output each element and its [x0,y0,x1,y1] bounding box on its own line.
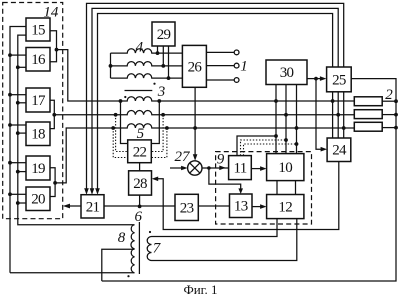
svg-text:4: 4 [136,39,144,55]
bus2 tap to 18 [18,132,26,134]
block 21 [81,195,104,218]
svg-text:8: 8 [118,230,126,246]
wire 26 down to mixer [194,87,196,155]
mixer 27 cross [190,163,200,173]
node busC [342,126,346,130]
bus1 tap to 20 [10,193,26,195]
node D2-v2 [284,138,288,142]
wire C (phase 3) with transformer winding [55,124,354,183]
svg-text:13: 13 [234,199,248,215]
bus2 tap to 20 [18,202,26,204]
svg-text:27: 27 [175,149,192,165]
svg-text:16: 16 [31,52,46,68]
arrow into 13 top [238,188,243,194]
wire 29 to W3 [168,46,170,78]
left bus wire 1 [10,27,26,273]
block 26 [182,45,206,87]
svg-text:25: 25 [332,72,346,88]
top bus line 3 [98,14,333,190]
wire 24 to 28 [157,162,339,230]
node 17/18 [52,113,56,117]
resistor 2a [354,97,382,106]
bus vertical 25-24 c [343,92,345,138]
dotted 11 top to v3 [244,144,297,156]
wire join 17+18 outputs [50,100,54,128]
link 10-12 left [276,181,278,195]
node 2a [394,99,398,103]
wire 12 bottom right to coil7 bottom [152,219,297,261]
link 10-12 right [295,181,297,195]
inductor 4 left link [110,53,112,78]
top bus line 1 [87,3,344,189]
label 6 above done; winding 8 [131,225,135,273]
node mixer out [207,166,211,170]
wire join 15+16 outputs [50,31,57,62]
wire 29 to W2 [162,46,164,66]
svg-text:26: 26 [188,59,203,75]
node W2 left [109,64,113,68]
node busB [336,113,340,117]
node 29-W3 [167,76,171,80]
terminal circle 1a [234,50,239,55]
node B left [114,113,118,117]
node 29-W1 [156,51,160,55]
vertical v2 30-10 [285,85,287,154]
vertical v1 30-10 [275,85,277,154]
svg-text:1: 1 [240,59,248,75]
left bus wire 2 [18,35,135,225]
wire A (phase 1) with transformer winding [57,50,355,101]
dotted C right to 22 [151,128,167,158]
terminal circle 1b [234,63,239,68]
bus2 tap to 19 [18,171,26,173]
junction dots bus2 [16,65,20,205]
block 19 [26,156,50,180]
wire 28 down to node 6 [139,195,141,206]
polarity dot coil8 [127,275,129,277]
node busA [331,99,335,103]
arrow into 24 [321,147,328,152]
arrow into 21 c [95,188,100,195]
bus vertical 25-24 a [332,92,334,138]
wire 13 to 12 [252,206,262,208]
junction dots bus1 [8,53,12,196]
arrow into 21 a [84,188,89,195]
polarity dot winding W3 [153,83,155,85]
svg-text:23: 23 [180,200,194,216]
arrow into box 9 [219,166,226,171]
arrow into mixer top [193,154,198,161]
svg-text:17: 17 [31,93,46,109]
node 2c [394,126,398,130]
block 20 [26,187,50,211]
svg-text:3: 3 [157,84,166,100]
resistor 2b [354,110,382,119]
resistor 2a right wire [382,100,396,102]
block 30 [266,60,307,85]
inductor 4 winding 1 [111,49,183,53]
svg-text:9: 9 [217,152,225,168]
polarity dot winding A [124,96,126,98]
inductor 4 winding 3 [111,74,183,78]
block 18 [26,122,50,146]
arrow 11-10 [260,166,267,171]
node v3-C [295,126,299,130]
svg-text:24: 24 [332,143,347,159]
node 29-W2 [161,64,165,68]
block 13 [230,194,253,218]
wire 22 to 28 [139,163,141,171]
block 23 [175,194,198,220]
block 28 [129,171,152,195]
terminal circle 1c [234,78,239,83]
svg-text:15: 15 [31,23,45,39]
block 17 [26,88,50,112]
bus2 tap to 17 [18,102,26,104]
node A right [157,99,161,103]
block 29 [152,22,175,46]
wire 21 to 14 [69,205,81,207]
resistor 2c right wire [382,127,396,129]
svg-text:22: 22 [133,144,147,160]
wire 12 bottom left to coil7 top [152,219,278,237]
mixer left input [170,167,184,169]
bus2 tap to 16 [18,66,26,68]
mixer output wire [202,167,229,169]
mixer 27 circle [188,161,202,175]
wire 23 to 13 [198,205,229,207]
dashed enclosure 9 [216,152,312,224]
bus1 tap to 16 [10,54,26,56]
svg-text:6: 6 [135,209,143,225]
dotted 11 top to v2 [241,140,287,156]
wire 11 to 10 [251,168,262,170]
branch to 13 [209,168,241,190]
svg-text:10: 10 [278,160,292,176]
svg-text:12: 12 [278,200,292,216]
svg-text:20: 20 [31,192,45,208]
wire 21 to 23 [104,205,175,207]
block 25 [327,67,352,92]
resistor 2b right wire [382,114,396,116]
wire B (phase 2) with transformer winding [54,111,354,115]
wire A left to 22 [121,101,128,144]
node 2b [394,113,398,117]
wire 25 right [102,79,396,281]
node wireC-mixer [193,126,197,130]
inductor 4 winding 2 [111,62,183,66]
svg-text:29: 29 [157,27,171,43]
resistor 2c [354,122,382,131]
node v2-B [284,113,288,117]
block 11 [229,156,252,180]
svg-text:30: 30 [280,65,294,81]
svg-text:11: 11 [233,161,246,177]
node v1-A [274,99,278,103]
block 22 [128,140,152,163]
bus1 tap to 19 [10,162,26,164]
output line 1b [206,65,234,67]
node 19/20 [53,181,57,185]
node C right [165,126,169,130]
node 6 [138,205,142,209]
svg-text:Фиг. 1: Фиг. 1 [183,282,217,297]
arrow 13-12 [260,204,267,209]
arrow into 28 [152,177,159,182]
node D-v1 [274,134,278,138]
wire join 19+20 outputs [50,168,55,197]
bus1 tap to 17 [10,94,26,96]
wire 11 top solid to v1 [237,136,276,156]
block 12 [267,195,304,219]
block 10 [267,154,304,181]
wire A right to 22 [151,101,159,144]
node A left [119,99,123,103]
output line 1c [206,79,234,81]
svg-text:19: 19 [31,161,45,177]
bus1 tap to 18 [10,124,26,126]
polarity dot coil7 [149,231,151,233]
winding 8 bottom wire [10,272,135,274]
bus vertical 25-24 b [337,92,339,138]
winding 7 [147,237,151,261]
block 24 [327,138,351,162]
wire 29 to W1 [157,46,159,53]
arrow into 21 b [90,188,95,195]
transformer 3 core [125,90,153,92]
dotted B right to 22 [151,115,163,152]
wire 30 to 25 [307,78,322,80]
block 16 [26,48,50,72]
block 15 [26,18,50,41]
dashed enclosure 14 [3,3,63,219]
svg-text:28: 28 [133,176,147,192]
node B right [161,113,165,117]
winding 8 midtap [102,249,135,281]
dotted B left to 22 [116,115,128,152]
svg-text:21: 21 [86,199,100,215]
transformer 6 core [138,222,140,274]
wire branch to 24 [316,79,323,150]
output line 1a [206,51,234,53]
node C left [111,126,115,130]
arrow into 25 [320,76,327,81]
arrow into 14 [63,204,70,209]
top bus line 2 [92,8,338,189]
node D3-v3 [295,142,299,146]
node 15/16 [55,48,59,52]
arrow into mixer left [181,166,188,171]
vertical v3 30-10 [296,85,298,154]
svg-text:18: 18 [31,127,45,143]
dotted C left to 22 [113,128,128,158]
node 30-25 [314,77,318,81]
